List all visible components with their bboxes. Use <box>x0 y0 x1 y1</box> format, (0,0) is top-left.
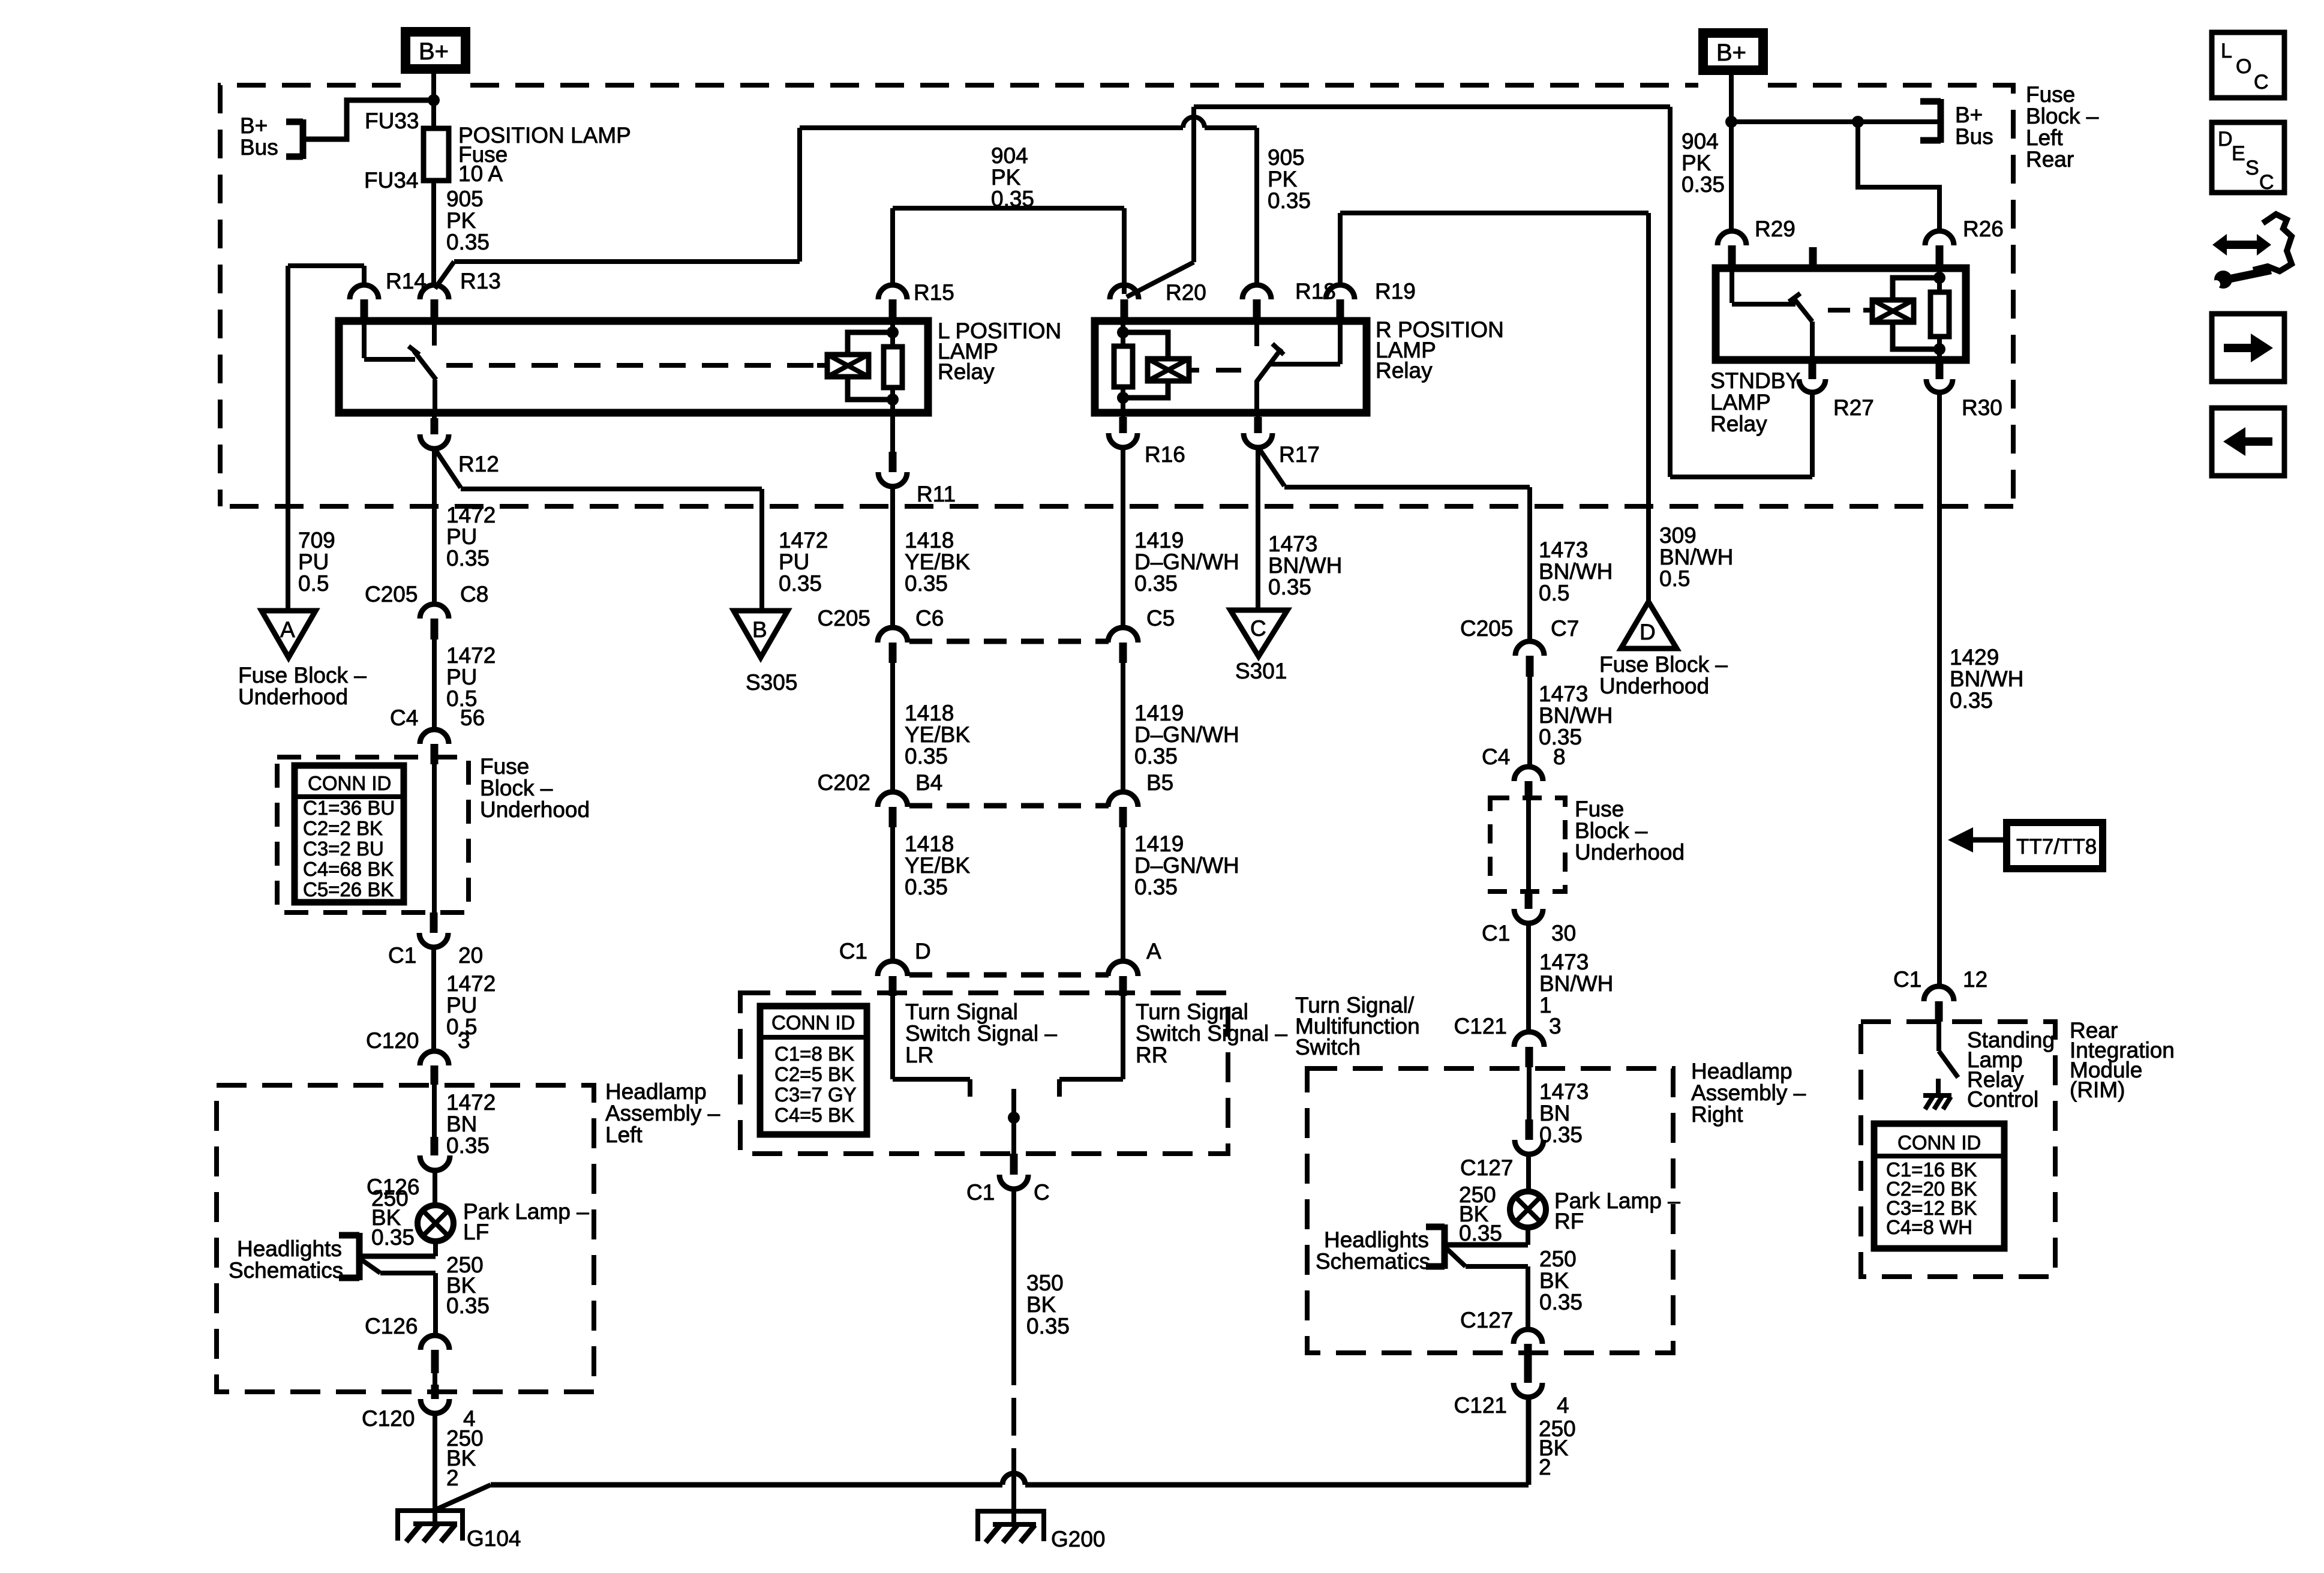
svg-text:Fuse: Fuse <box>480 754 529 779</box>
svg-text:1473: 1473 <box>1539 1079 1589 1104</box>
connector C205|C7 <box>1460 616 1579 677</box>
svg-text:1419: 1419 <box>1134 701 1184 725</box>
wire 1472 PU 0.5 to C120 <box>434 947 496 1051</box>
B+ Bus terminal (right) <box>1920 99 1993 149</box>
connector R20 <box>1110 280 1206 320</box>
wire 250 BK to C126 lower <box>436 1253 490 1335</box>
svg-text:BN/WH: BN/WH <box>1539 703 1613 728</box>
connector R16 <box>1109 413 1185 467</box>
connector C121|3 <box>1454 1014 1562 1067</box>
svg-text:L: L <box>2221 40 2232 62</box>
svg-text:PU: PU <box>446 993 477 1017</box>
wire 250 BK 2 to ground bus <box>1539 1416 1576 1479</box>
node: B+ bus junction 2 <box>1852 116 1864 128</box>
connector R27 <box>1799 360 1874 420</box>
svg-text:Switch Signal –: Switch Signal – <box>905 1021 1057 1046</box>
svg-text:D: D <box>2218 128 2233 151</box>
svg-text:Assembly –: Assembly – <box>605 1101 720 1125</box>
CONN ID table (RIM) <box>1874 1124 2004 1248</box>
back arrow icon <box>2212 408 2284 476</box>
svg-text:BN: BN <box>1539 1101 1570 1125</box>
svg-text:3: 3 <box>458 1028 470 1053</box>
svg-text:CONN ID: CONN ID <box>771 1011 855 1034</box>
svg-text:Headlights: Headlights <box>1324 1227 1429 1252</box>
svg-text:O: O <box>2236 55 2251 78</box>
svg-text:1418: 1418 <box>905 831 954 856</box>
standing lamp relay control switch <box>1939 1022 2055 1112</box>
svg-text:Switch: Switch <box>1295 1035 1361 1059</box>
L relay coil <box>441 320 902 413</box>
C205 boundary dashed <box>909 639 1109 644</box>
svg-text:2: 2 <box>1539 1455 1551 1479</box>
wire 350 BK to G200 <box>1014 1189 1070 1524</box>
svg-text:8: 8 <box>1553 745 1566 769</box>
wire 1473 BN to C127 <box>1529 1067 1589 1147</box>
svg-text:RR: RR <box>1136 1043 1167 1067</box>
svg-text:C1: C1 <box>1893 967 1921 992</box>
svg-text:R13: R13 <box>460 269 501 293</box>
svg-text:Headlamp: Headlamp <box>1691 1059 1792 1083</box>
wire 1419 B5 to A <box>1123 827 1239 962</box>
svg-text:1473: 1473 <box>1268 532 1317 556</box>
svg-text:Underhood: Underhood <box>1575 840 1685 864</box>
svg-text:C: C <box>1034 1180 1050 1205</box>
svg-text:C126: C126 <box>365 1314 418 1338</box>
svg-text:D–GN/WH: D–GN/WH <box>1134 722 1239 747</box>
svg-text:0.35: 0.35 <box>779 571 822 596</box>
main dashed box: Fuse Block Underhood / relay center <box>220 85 2013 506</box>
svg-text:0.35: 0.35 <box>991 187 1034 211</box>
lamp: Park Lamp LF <box>418 1199 589 1244</box>
svg-text:R16: R16 <box>1145 442 1185 467</box>
svg-text:0.35: 0.35 <box>905 744 948 769</box>
svg-text:Bus: Bus <box>1955 124 1993 149</box>
wire 1473 BN/WH 1 to C121 <box>1529 923 1613 1032</box>
STNDBY LAMP relay box <box>1710 268 1966 436</box>
connector C205|C6 <box>818 606 944 663</box>
svg-text:R17: R17 <box>1279 442 1320 467</box>
Fuse Block Underhood dashed box (small) <box>1490 797 1685 891</box>
svg-text:PU: PU <box>446 524 477 549</box>
wire 1473 BN/WH 0.5: R17 to C7 <box>1259 449 1613 641</box>
svg-text:1472: 1472 <box>446 1090 496 1115</box>
svg-text:R26: R26 <box>1963 217 2004 241</box>
lamp: Park Lamp RF <box>1510 1188 1680 1233</box>
connector R13 <box>420 269 501 320</box>
wire 1419 C5 to B5 <box>1123 663 1239 792</box>
wire 309: R19 to D triangle <box>1340 213 1733 608</box>
svg-text:Relay: Relay <box>938 359 995 384</box>
svg-text:(RIM): (RIM) <box>2070 1077 2125 1102</box>
svg-text:Turn Signal: Turn Signal <box>1136 999 1248 1024</box>
svg-text:R27: R27 <box>1833 395 1874 420</box>
connector C205|C8 <box>365 582 488 640</box>
svg-text:C: C <box>2259 171 2274 194</box>
svg-text:C2=5 BK: C2=5 BK <box>774 1063 854 1085</box>
C1 boundary dashed <box>909 972 1109 978</box>
svg-text:C120: C120 <box>366 1028 419 1053</box>
svg-text:A: A <box>280 617 295 642</box>
wire R14 to A triangle (709 PU) <box>288 266 364 611</box>
svg-text:0.35: 0.35 <box>446 1133 490 1158</box>
svg-text:Underhood: Underhood <box>480 797 590 822</box>
svg-text:56: 56 <box>460 706 485 730</box>
svg-text:0.35: 0.35 <box>905 571 948 596</box>
svg-text:3: 3 <box>1549 1014 1562 1038</box>
wire 1472 PU 0.5 C8 to C4 <box>434 640 496 730</box>
svg-text:B: B <box>752 617 767 642</box>
svg-text:4: 4 <box>1557 1393 1569 1418</box>
svg-text:A: A <box>1146 939 1161 963</box>
svg-text:1419: 1419 <box>1134 528 1184 553</box>
wire 250 BK 2 to G104 <box>435 1413 484 1524</box>
svg-text:309: 309 <box>1659 523 1697 548</box>
connector C202|B5 <box>1108 770 1173 827</box>
svg-text:0.35: 0.35 <box>1134 744 1178 769</box>
wire 904: R15 to R20 <box>893 143 1124 294</box>
wire 1472 PU: R12 branch to B triangle <box>436 450 828 611</box>
svg-text:C3=7 GY: C3=7 GY <box>774 1083 857 1106</box>
svg-text:C121: C121 <box>1454 1014 1507 1038</box>
svg-text:Control: Control <box>1967 1087 2038 1112</box>
connector R15 <box>878 280 954 320</box>
svg-text:R15: R15 <box>914 280 954 305</box>
wire 1473 BN/WH: R17 to S301 <box>1258 448 1342 610</box>
wire 904: R20 to R27 (via top) <box>1127 107 1812 477</box>
C202 boundary dashed <box>909 803 1109 809</box>
connector C126 (upper) <box>367 1137 450 1199</box>
svg-text:1473: 1473 <box>1539 538 1588 562</box>
svg-text:Fuse Block –: Fuse Block – <box>238 663 367 688</box>
wire through fuse block <box>432 764 437 915</box>
svg-text:0.35: 0.35 <box>1134 875 1178 899</box>
connector C1|20 <box>388 912 483 968</box>
svg-text:FU33: FU33 <box>365 109 419 133</box>
svg-text:0.35: 0.35 <box>1026 1314 1070 1338</box>
wire junction to B+ Bus (right) <box>1731 119 1941 124</box>
svg-text:C2=2 BK: C2=2 BK <box>303 817 383 839</box>
svg-text:C121: C121 <box>1454 1393 1507 1418</box>
svg-text:PU: PU <box>298 550 329 574</box>
svg-text:Relay: Relay <box>1710 412 1767 436</box>
connector R19 <box>1326 279 1416 320</box>
svg-text:Assembly –: Assembly – <box>1691 1080 1806 1105</box>
standby relay switch <box>1732 268 1812 360</box>
R relay coil <box>1114 320 1241 413</box>
svg-text:C4=5 BK: C4=5 BK <box>774 1104 854 1126</box>
svg-text:D–GN/WH: D–GN/WH <box>1134 550 1239 574</box>
connector C120|3 <box>366 1028 470 1085</box>
svg-text:2: 2 <box>446 1466 459 1490</box>
svg-text:Underhood: Underhood <box>1599 674 1709 698</box>
B+ Bus terminal (left) <box>240 113 303 160</box>
svg-text:YE/BK: YE/BK <box>905 550 970 574</box>
turn signal LR contact <box>893 996 1057 1097</box>
svg-text:Turn Signal: Turn Signal <box>905 999 1018 1024</box>
Turn Signal / Multifunction Switch dashed box <box>740 993 1420 1154</box>
svg-text:C205: C205 <box>818 606 870 631</box>
connector R12 <box>420 413 499 476</box>
svg-text:Bus: Bus <box>240 135 278 160</box>
svg-text:PU: PU <box>779 550 809 574</box>
svg-text:1429: 1429 <box>1950 645 1999 670</box>
svg-text:C205: C205 <box>365 582 418 607</box>
wire 1419 D-GN/WH: R16 to C5 <box>1123 448 1239 628</box>
svg-text:PK: PK <box>446 208 476 233</box>
next arrow icon <box>2212 314 2284 382</box>
svg-text:0.5: 0.5 <box>1659 566 1690 591</box>
wire 1473 BN/WH 0.35 C7 to C4 <box>1530 677 1613 767</box>
headlights schematics bracket (right) <box>1316 1224 1528 1274</box>
off-page triangle D (fuse block underhood) <box>1599 602 1728 698</box>
connector C1|12 <box>1893 967 1987 1022</box>
svg-text:Block –: Block – <box>1575 818 1648 843</box>
hotlink icon (arrow and wrench) <box>2212 214 2292 289</box>
svg-text:Right: Right <box>1691 1102 1743 1127</box>
svg-text:0.35: 0.35 <box>1682 172 1725 197</box>
svg-text:C205: C205 <box>1460 616 1513 641</box>
svg-text:R30: R30 <box>1962 395 2002 420</box>
svg-text:1473: 1473 <box>1539 682 1588 706</box>
svg-text:R12: R12 <box>458 452 499 476</box>
svg-text:B4: B4 <box>915 770 942 795</box>
svg-text:10 A: 10 A <box>458 161 503 186</box>
wire ground bus tap at G104 <box>436 1485 491 1509</box>
ground (RIM internal) <box>1923 1079 1951 1109</box>
svg-text:G200: G200 <box>1051 1527 1106 1551</box>
connector R18 <box>1242 279 1336 320</box>
Fuse Block - Left Rear label <box>2026 82 2099 172</box>
connector C202|B4 <box>818 770 943 827</box>
svg-text:1418: 1418 <box>905 701 954 725</box>
svg-text:1418: 1418 <box>905 528 954 553</box>
svg-text:C3=2 BU: C3=2 BU <box>303 837 384 860</box>
svg-text:0.5: 0.5 <box>1539 581 1569 605</box>
svg-text:C: C <box>2254 71 2269 94</box>
ground bus wire <box>491 1397 1529 1485</box>
svg-text:YE/BK: YE/BK <box>905 722 970 747</box>
svg-text:Underhood: Underhood <box>238 685 348 709</box>
svg-text:905: 905 <box>446 187 484 211</box>
svg-text:0.35: 0.35 <box>905 875 948 899</box>
connector C1|A <box>1108 939 1161 996</box>
wire junction to B+ Bus tap <box>305 100 434 139</box>
svg-text:Headlamp: Headlamp <box>605 1079 707 1104</box>
svg-text:C202: C202 <box>818 770 870 795</box>
svg-text:0.35: 0.35 <box>1268 188 1311 213</box>
connector R29 <box>1718 217 1795 268</box>
svg-text:1472: 1472 <box>446 971 496 996</box>
svg-text:BK: BK <box>1539 1268 1569 1293</box>
svg-text:905: 905 <box>1268 145 1305 170</box>
svg-text:C1: C1 <box>839 939 867 963</box>
svg-text:S: S <box>2245 157 2259 179</box>
svg-text:709: 709 <box>298 528 335 553</box>
B+ power symbol (right) <box>1703 33 1763 70</box>
TT7/TT8 testpoint box and arrow <box>1948 822 2103 869</box>
B+ power symbol (left) <box>406 32 466 69</box>
svg-text:BN/WH: BN/WH <box>1268 553 1342 578</box>
svg-text:D: D <box>1640 620 1656 644</box>
node: right B+ junction <box>1725 116 1737 128</box>
svg-text:C7: C7 <box>1551 616 1579 641</box>
connector R14 <box>350 269 427 320</box>
svg-text:C1: C1 <box>966 1180 995 1205</box>
svg-text:1472: 1472 <box>446 643 496 668</box>
Rear Integration Module dashed box <box>1861 1018 2175 1277</box>
svg-text:B+: B+ <box>419 38 449 65</box>
svg-text:S301: S301 <box>1235 659 1287 683</box>
svg-text:B+: B+ <box>240 113 268 138</box>
CONN ID table (turn signal switch) <box>760 1006 867 1134</box>
Headlamp Assembly Left dashed box <box>217 1079 720 1392</box>
connector C127 (upper) <box>1460 1119 1544 1180</box>
wire 905: R13 to R18 <box>435 117 1311 289</box>
svg-text:CONN ID: CONN ID <box>1897 1131 1981 1154</box>
svg-text:0.35: 0.35 <box>446 1293 490 1318</box>
svg-text:C4: C4 <box>1482 745 1510 769</box>
svg-text:Rear: Rear <box>2026 147 2074 172</box>
LOC icon <box>2212 32 2284 98</box>
svg-text:PU: PU <box>446 665 477 689</box>
svg-text:30: 30 <box>1551 921 1576 945</box>
svg-text:B+: B+ <box>1716 40 1746 66</box>
svg-text:R29: R29 <box>1755 217 1795 241</box>
DESC icon <box>2212 122 2284 194</box>
svg-text:Left: Left <box>605 1122 642 1147</box>
svg-text:1419: 1419 <box>1134 831 1184 856</box>
wire 1429 BN/WH: R30 to RIM C1|12 <box>1939 392 2023 986</box>
svg-text:S305: S305 <box>746 670 797 695</box>
L POSITION LAMP relay box <box>339 319 1061 413</box>
wire 1472 PU: R12 down to C8 <box>434 449 496 604</box>
connector C205|C5 <box>1108 606 1175 663</box>
svg-text:1472: 1472 <box>779 528 828 553</box>
wire through small fuse block <box>1526 800 1531 893</box>
svg-text:R11: R11 <box>917 482 956 506</box>
svg-text:RF: RF <box>1554 1209 1584 1233</box>
svg-text:C: C <box>1250 616 1266 641</box>
wire 250 BK to C127 lower <box>1528 1247 1583 1329</box>
standby relay pin stub (center top) <box>1809 247 1817 268</box>
svg-text:B+: B+ <box>1955 103 1983 127</box>
svg-text:YE/BK: YE/BK <box>905 853 970 878</box>
connector C121|4 <box>1454 1368 1569 1418</box>
off-page triangle A <box>238 611 367 709</box>
wire 1418 B4 to D <box>893 827 970 962</box>
svg-text:STNDBY: STNDBY <box>1710 368 1800 393</box>
svg-text:Relay: Relay <box>1376 358 1433 383</box>
svg-text:904: 904 <box>1682 129 1719 154</box>
connector C126 (lower) <box>365 1314 449 1373</box>
svg-text:G104: G104 <box>467 1526 521 1551</box>
wire 1472 BN to C126 <box>434 1085 496 1158</box>
off-page triangle B / S305 <box>734 611 797 695</box>
svg-text:250: 250 <box>1539 1247 1577 1271</box>
svg-text:LF: LF <box>463 1220 489 1244</box>
svg-text:C1=8 BK: C1=8 BK <box>774 1043 854 1065</box>
svg-text:C5: C5 <box>1146 606 1175 631</box>
svg-text:BN/WH: BN/WH <box>1539 971 1613 996</box>
svg-text:LR: LR <box>905 1043 933 1067</box>
CONN ID table (underhood) <box>295 766 404 902</box>
svg-text:PK: PK <box>991 165 1021 190</box>
svg-text:1473: 1473 <box>1539 950 1589 974</box>
svg-text:0.5: 0.5 <box>298 571 329 596</box>
Headlamp Assembly Right dashed box <box>1307 1059 1806 1353</box>
svg-text:C127: C127 <box>1460 1308 1513 1332</box>
svg-text:0.35: 0.35 <box>446 230 490 254</box>
Fuse Block Underhood dashed box (left) <box>277 754 590 912</box>
wire 1418 C6 to B4 <box>893 663 970 792</box>
svg-text:Fuse: Fuse <box>2026 82 2075 107</box>
wire fuse to R13 (905 PK) <box>431 181 436 285</box>
svg-text:12: 12 <box>1963 967 1987 992</box>
wire 1418 YE/BK: R11 to C6 <box>893 487 970 628</box>
svg-text:0.35: 0.35 <box>1459 1221 1502 1245</box>
svg-text:C4=8 WH: C4=8 WH <box>1886 1216 1972 1238</box>
svg-text:Headlights: Headlights <box>237 1236 342 1261</box>
svg-text:CONN ID: CONN ID <box>308 772 391 794</box>
ground G200 <box>978 1509 1106 1551</box>
svg-text:R19: R19 <box>1375 279 1416 304</box>
svg-text:D: D <box>915 939 931 963</box>
connector R11 <box>878 413 956 506</box>
svg-text:BN/WH: BN/WH <box>1950 667 2023 691</box>
svg-text:BK: BK <box>1026 1292 1056 1317</box>
svg-text:B5: B5 <box>1146 770 1173 795</box>
svg-text:904: 904 <box>991 143 1028 168</box>
connector R30 <box>1926 360 2002 420</box>
connector C1|C <box>966 1154 1050 1205</box>
turn signal RR contact <box>1059 996 1287 1097</box>
connector R17 <box>1244 413 1320 467</box>
connector C127 (lower) <box>1460 1308 1542 1368</box>
svg-text:Schematics: Schematics <box>229 1258 343 1283</box>
svg-text:0.35: 0.35 <box>1134 571 1178 596</box>
svg-text:C4: C4 <box>390 706 418 730</box>
wire 250 BK to park lamp RF <box>1459 1154 1529 1245</box>
svg-text:0.35: 0.35 <box>1539 1290 1583 1314</box>
svg-text:0.35: 0.35 <box>1950 688 1993 713</box>
headlights schematics bracket (left) <box>229 1233 436 1283</box>
connector C4|8 <box>1482 745 1566 800</box>
connector C4|56 <box>390 706 485 764</box>
svg-text:FU34: FU34 <box>364 168 418 193</box>
svg-text:Left: Left <box>2026 125 2063 150</box>
connector C1|D <box>839 939 931 996</box>
fuse FU33/FU34 POSITION LAMP Fuse 10A <box>364 109 631 193</box>
L relay switch <box>364 320 436 413</box>
turn signal common wire <box>1008 1089 1020 1154</box>
svg-text:C6: C6 <box>915 606 944 631</box>
svg-text:C127: C127 <box>1460 1155 1513 1180</box>
svg-text:D–GN/WH: D–GN/WH <box>1134 853 1239 878</box>
svg-text:Block –: Block – <box>480 776 553 800</box>
wire B+ right down to R29 <box>1729 75 1734 231</box>
svg-text:Switch Signal –: Switch Signal – <box>1136 1021 1287 1046</box>
svg-text:C8: C8 <box>460 582 488 607</box>
svg-text:PK: PK <box>1682 151 1712 175</box>
svg-text:Schematics: Schematics <box>1316 1249 1430 1274</box>
svg-text:TT7/TT8: TT7/TT8 <box>2016 835 2097 858</box>
svg-text:0.35: 0.35 <box>1268 575 1311 599</box>
R relay switch <box>1256 320 1340 413</box>
svg-text:BN: BN <box>446 1112 477 1136</box>
svg-text:BN/WH: BN/WH <box>1539 559 1613 584</box>
wire 250 BK to park lamp <box>371 1170 435 1250</box>
standby relay coil <box>1828 268 1949 360</box>
